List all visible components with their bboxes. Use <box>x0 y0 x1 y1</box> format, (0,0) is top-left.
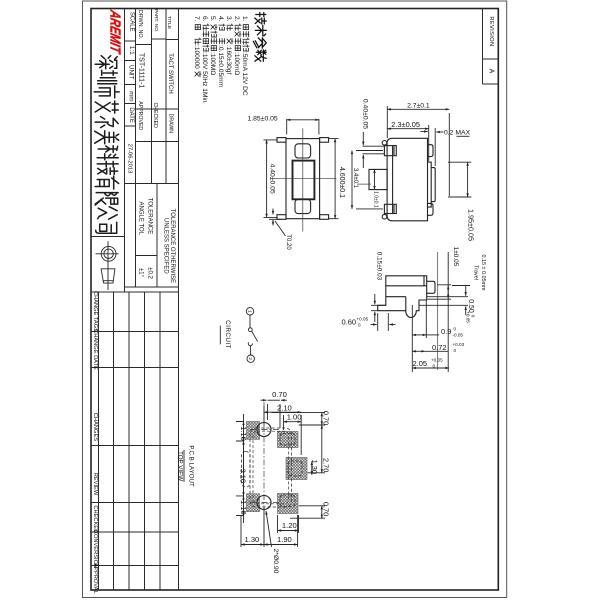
svg-text::50mA 12V DC: :50mA 12V DC <box>241 52 248 96</box>
svg-text:0.40±0.05: 0.40±0.05 <box>361 99 368 129</box>
front view locating boss <box>369 169 387 189</box>
front view lead circle lower <box>382 214 387 219</box>
svg-text:6.: 6. <box>201 16 208 22</box>
svg-text:1.00: 1.00 <box>287 413 302 422</box>
dimension 1.30 inner <box>310 460 319 475</box>
dimension 0.70 top <box>261 390 288 428</box>
svg-text::100mΩ: :100mΩ <box>233 52 240 75</box>
dimension 3.4±0.1 <box>352 151 383 209</box>
svg-text:2.10: 2.10 <box>277 403 292 412</box>
front view stem tip <box>431 168 435 202</box>
svg-text:PART. NO.: PART. NO. <box>153 9 159 32</box>
svg-text:1.20: 1.20 <box>282 521 297 530</box>
svg-text:4.40±0.05: 4.40±0.05 <box>268 164 275 194</box>
footprint outline dashed <box>250 428 292 507</box>
front view ear tab upper <box>428 145 434 157</box>
tech parameters heading (CJK strokes) <box>253 13 266 62</box>
svg-text:2: 2 <box>248 357 253 360</box>
svg-text:0: 0 <box>433 364 436 369</box>
svg-text:APPROVAL: APPROVAL <box>92 563 98 593</box>
main drawing frame <box>91 9 498 591</box>
svg-text:±1°: ±1° <box>138 268 144 278</box>
side view cover line <box>386 276 427 286</box>
svg-text:3.10: 3.10 <box>239 469 248 483</box>
top view terminal tab lower-left <box>277 215 286 220</box>
dimension 1±0.05 <box>428 247 459 300</box>
circuit label underline <box>219 326 221 345</box>
dimension 1.00 <box>284 413 302 430</box>
svg-text:1.: 1. <box>241 16 248 22</box>
side view stem centerline <box>437 252 439 370</box>
svg-text:0.60: 0.60 <box>342 318 357 327</box>
front view lead circle upper <box>382 141 387 146</box>
svg-text:DRAWN: DRAWN <box>167 114 173 134</box>
svg-text:UNIT: UNIT <box>128 65 135 80</box>
svg-text:CIRCUIT: CIRCUIT <box>224 320 231 349</box>
dimension T0.20 <box>269 209 291 251</box>
AREMIT logo <box>107 8 123 56</box>
pad lower-left <box>247 494 260 512</box>
svg-text:2.70: 2.70 <box>321 458 330 472</box>
svg-text:2.7±0.1: 2.7±0.1 <box>407 103 430 110</box>
svg-text::100000: :100000 <box>193 45 200 69</box>
footprint lead middle-right dashed <box>288 461 302 476</box>
dimension 0.50 +0.05/0 <box>419 286 476 323</box>
front view stem step1 <box>428 162 432 207</box>
change table column headers <box>92 291 98 594</box>
svg-text:0.70: 0.70 <box>321 502 330 516</box>
front view pin inner lines <box>393 146 395 213</box>
svg-text:0.2 MAX: 0.2 MAX <box>444 130 471 137</box>
dimension 0.9 0/-0.05 <box>412 300 463 372</box>
svg-text:TST-1111-1: TST-1111-1 <box>137 53 144 89</box>
svg-text:7.: 7. <box>193 16 200 22</box>
top view centerline horizontal <box>270 178 337 180</box>
dimension 0.15±0.03 <box>371 252 386 322</box>
dimension 0.40±0.05 <box>361 99 384 168</box>
svg-text:0: 0 <box>471 315 476 318</box>
svg-text:CHANGE DATE: CHANGE DATE <box>92 329 98 370</box>
dimension 1.0±0.1 <box>369 169 379 208</box>
circuit switch lever <box>252 331 258 342</box>
svg-text::100V 50Hz 1Min: :100V 50Hz 1Min <box>201 52 208 103</box>
title block labels <box>126 9 173 173</box>
svg-text:T0.20: T0.20 <box>285 234 291 250</box>
hole centerline upper <box>250 429 280 431</box>
circuit terminal 1 <box>246 308 253 315</box>
svg-text:+0.05: +0.05 <box>466 311 471 323</box>
dimension 0.72 +0.03/0 <box>412 342 464 353</box>
hole callout 2*Φ0.90 <box>266 511 279 574</box>
svg-text:2*Ø0.90: 2*Ø0.90 <box>272 549 279 574</box>
svg-text:DRWN. NO.: DRWN. NO. <box>137 10 143 39</box>
top view body <box>286 139 320 219</box>
right dimension chain 0.70/2.70/0.70 <box>272 411 331 518</box>
svg-text:A: A <box>487 69 494 74</box>
svg-text:SCALE: SCALE <box>128 12 134 32</box>
svg-text:0.9: 0.9 <box>441 327 451 336</box>
footprint lead upper-right dashed <box>280 434 295 446</box>
dimension 1.90 bottom <box>264 515 298 547</box>
svg-text:TACT SWITCH: TACT SWITCH <box>167 53 173 93</box>
dimension 1.85±0.05 <box>247 115 318 134</box>
svg-text:1.0±0.1: 1.0±0.1 <box>372 191 378 208</box>
dimension 2.05 +0.05/0 <box>412 252 449 372</box>
dimension 1.30 bottom <box>241 508 264 547</box>
footprint lead lower-right dashed <box>280 495 295 507</box>
svg-text:4.: 4. <box>217 16 224 22</box>
svg-text:0.70: 0.70 <box>321 411 330 425</box>
svg-text:CHANGE TAGS: CHANGE TAGS <box>92 291 98 332</box>
top view contact dome upper <box>295 144 311 158</box>
svg-text:P.C.B LAYOUT: P.C.B LAYOUT <box>188 445 195 487</box>
dimension 0.60 +0.05/0 <box>342 313 396 331</box>
tech parameter line 2 <box>233 16 241 75</box>
svg-text:REVIEW: REVIEW <box>92 473 98 496</box>
svg-text:TOP VIEW: TOP VIEW <box>177 451 184 481</box>
svg-text:2.3±0.05: 2.3±0.05 <box>391 120 420 129</box>
svg-text:1.90: 1.90 <box>277 535 292 544</box>
hole centerline lower <box>250 502 280 504</box>
svg-text:CHECKED: CHECKED <box>152 103 158 129</box>
svg-text:2.: 2. <box>233 16 240 22</box>
circuit contact pole <box>248 328 252 332</box>
svg-text:UNLESS SPECIFED: UNLESS SPECIFED <box>162 218 168 274</box>
svg-text:±0.2: ±0.2 <box>147 267 153 279</box>
pad upper-left <box>247 422 260 440</box>
tech parameter line 1 <box>241 16 249 96</box>
top view terminal tab upper-left <box>277 138 286 143</box>
revision box grid <box>483 9 499 85</box>
svg-text:REVISION: REVISION <box>488 16 494 46</box>
svg-text::100MΩ: :100MΩ <box>209 52 216 75</box>
top view actuator window <box>293 161 315 200</box>
svg-text:1.85±0.05: 1.85±0.05 <box>247 115 277 122</box>
dimension 1.20 bottom <box>278 515 299 533</box>
pad lower-right <box>278 494 299 514</box>
top view contact dome lower <box>295 199 311 213</box>
svg-text:APPROVED: APPROVED <box>137 101 143 130</box>
svg-text:+0.05: +0.05 <box>431 358 443 363</box>
travel note 0.15±0.05mm Travel <box>452 255 486 291</box>
title block grid lines <box>91 9 179 591</box>
circuit contact throw <box>248 342 252 345</box>
svg-text:CHANGES: CHANGES <box>92 413 98 441</box>
svg-text:0.15 ± 0.05mm: 0.15 ± 0.05mm <box>480 255 486 291</box>
side view lead bend lines <box>386 297 406 311</box>
svg-text:TOLERANCE: TOLERANCE <box>146 198 152 235</box>
svg-text:27-06-2013: 27-06-2013 <box>126 144 132 174</box>
svg-text:Travel: Travel <box>473 265 479 280</box>
side view stem <box>427 281 435 293</box>
hole lower <box>257 496 271 510</box>
circuit terminal 2 <box>247 355 254 362</box>
circuit wire <box>249 315 251 328</box>
svg-text:-0.05: -0.05 <box>453 333 464 338</box>
svg-text:3.: 3. <box>225 16 232 22</box>
front view body <box>387 138 427 221</box>
svg-text::0.15±0.05mm: :0.15±0.05mm <box>217 45 224 88</box>
dimension 1.95±0.05 <box>448 162 475 241</box>
dimension 2.10 <box>264 403 301 455</box>
front view terminal pin lower <box>384 204 396 213</box>
change history table <box>91 292 179 590</box>
svg-text:0: 0 <box>358 323 361 328</box>
svg-text:1.95±0.05: 1.95±0.05 <box>466 209 475 241</box>
dimension 2.7±0.1 <box>387 103 449 196</box>
svg-text:ANGLE TOL: ANGLE TOL <box>138 202 144 236</box>
svg-text:1±0.05: 1±0.05 <box>452 247 459 267</box>
svg-text:0: 0 <box>454 348 457 353</box>
front view ear tab lower <box>428 203 434 215</box>
svg-text:1.10: 1.10 <box>239 500 248 514</box>
page outer border <box>83 1 507 598</box>
footprint inner dashed <box>253 431 289 504</box>
tech parameter line 3 <box>225 16 233 74</box>
circuit wire 2 <box>250 346 252 355</box>
svg-text:2.05: 2.05 <box>413 359 428 368</box>
front view boss centerline <box>357 183 371 185</box>
dimension 4.40±0.05 <box>264 140 278 218</box>
pcb layout label divider <box>183 450 185 482</box>
svg-text:mm: mm <box>127 91 134 101</box>
svg-text:1.10: 1.10 <box>239 426 248 440</box>
top view centerline vertical <box>302 128 304 231</box>
svg-text::160±30gf: :160±30gf <box>225 45 232 74</box>
top view terminal tab lower-right <box>320 215 329 220</box>
svg-text:TOLERANCE OTHERWISE: TOLERANCE OTHERWISE <box>169 209 175 283</box>
tech parameter line 5 <box>209 16 217 75</box>
svg-text:4.600±0.1: 4.600±0.1 <box>338 167 345 198</box>
projection symbol target circle <box>96 241 119 290</box>
left dimension chain 1.10/3.10/1.10 <box>236 414 248 523</box>
svg-text:1: 1 <box>248 310 253 313</box>
svg-text:1.30: 1.30 <box>310 460 319 474</box>
svg-text:0.70: 0.70 <box>272 390 287 399</box>
hole upper <box>257 423 271 437</box>
svg-text:+0.03: +0.03 <box>453 342 465 347</box>
svg-text:0.15±0.03: 0.15±0.03 <box>376 252 383 281</box>
projection symbol cone <box>101 269 115 283</box>
front view case seam <box>392 146 394 213</box>
tech parameter line 7 <box>193 16 201 77</box>
tech parameter line 6 <box>201 16 209 103</box>
top view terminal tab upper-right <box>320 138 329 143</box>
footprint boss dashed <box>242 452 251 488</box>
company name (stroke-drawn CJK) <box>94 56 119 234</box>
svg-text:DATE: DATE <box>128 107 134 123</box>
tolerance block texts <box>138 198 176 283</box>
dimension 0.2 MAX <box>421 128 471 166</box>
pad upper-right <box>278 432 299 448</box>
side view outline <box>378 276 427 318</box>
dimension 2.3±0.05 <box>387 120 428 161</box>
svg-text:1:1: 1:1 <box>128 46 135 55</box>
svg-text:5.: 5. <box>209 16 216 22</box>
svg-text:0.72: 0.72 <box>432 343 447 352</box>
svg-text:1.30: 1.30 <box>245 535 260 544</box>
svg-text:0: 0 <box>454 327 457 332</box>
svg-text:+0.05: +0.05 <box>357 317 369 322</box>
pad middle-right <box>286 458 307 480</box>
front view terminal pin upper <box>384 146 396 156</box>
svg-text:AREMIT: AREMIT <box>107 8 123 56</box>
dimension 4.600±0.1 <box>329 139 345 219</box>
pcb centerline vertical <box>263 402 265 545</box>
svg-text:3.4±0.1: 3.4±0.1 <box>352 168 358 189</box>
tech parameter line 4 <box>217 16 225 88</box>
svg-text:TITLE: TITLE <box>166 16 172 30</box>
